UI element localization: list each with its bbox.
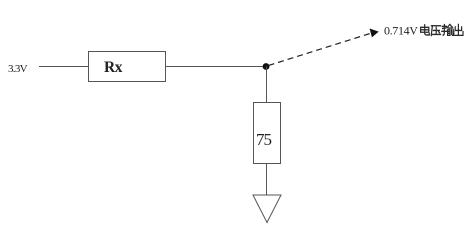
glyph 出 [454, 24, 463, 35]
wire from resistor 75 to ground [266, 164, 268, 196]
resistor 75 [254, 103, 281, 164]
svg-text:Rx: Rx [104, 59, 123, 76]
ground [253, 195, 281, 223]
glyph 压 [431, 26, 440, 36]
wire from node down to resistor 75 [266, 67, 268, 103]
wire from 3.3V to Rx [39, 66, 88, 68]
glyph 电 [421, 25, 430, 35]
arrowhead [370, 29, 379, 38]
wire from Rx to node [166, 66, 267, 68]
resistor Rx [89, 52, 166, 82]
svg-text:0.714V: 0.714V [384, 24, 418, 38]
label 电压输出 (drawn glyphs) [421, 24, 463, 35]
svg-text:3.3V: 3.3V [8, 63, 28, 75]
dashed output wire [269, 34, 371, 66]
svg-text:75: 75 [256, 130, 272, 149]
node junction dot [263, 63, 270, 70]
glyph 输 [442, 24, 453, 35]
